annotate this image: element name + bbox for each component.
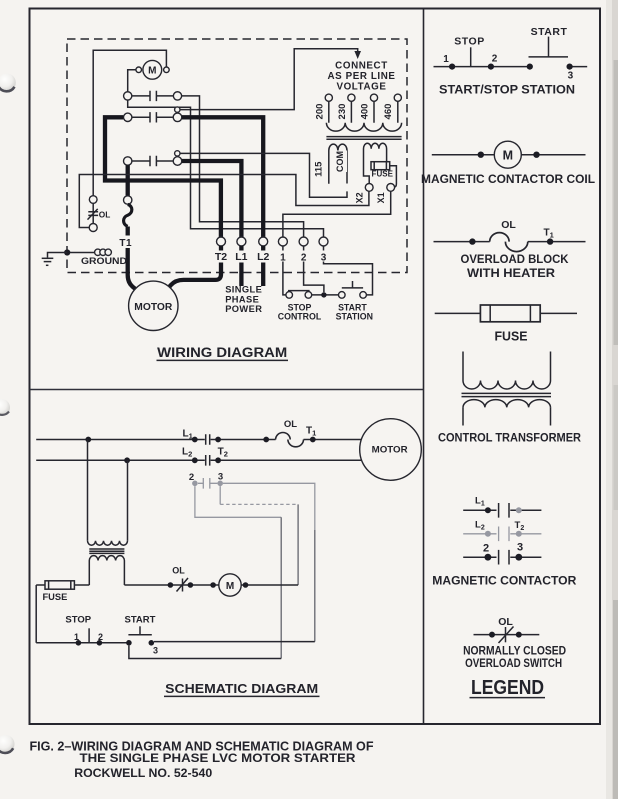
- rung dots: [168, 582, 174, 588]
- svg-text:M: M: [503, 149, 513, 163]
- transformer primary leads: [88, 440, 128, 541]
- svg-text:3: 3: [321, 253, 327, 264]
- left drop wire: [35, 585, 37, 643]
- note CONNECT AS PER LINE VOLTAGE: [327, 61, 395, 93]
- legend NC overload switch symbol: [474, 616, 540, 643]
- legend start/stop station symbol: [434, 26, 588, 81]
- svg-text:OL: OL: [501, 219, 516, 231]
- wire row2-upper to connect-arrow: [180, 49, 358, 110]
- control transformer T1 (wiring): [314, 94, 402, 203]
- ground connector coil: [70, 249, 112, 255]
- thick T2 lead into motor: [169, 246, 221, 288]
- svg-text:MAGNETIC CONTACTOR: MAGNETIC CONTACTOR: [432, 573, 576, 587]
- coil M: [143, 60, 162, 79]
- svg-text:2: 2: [492, 54, 498, 65]
- svg-text:200: 200: [315, 104, 326, 120]
- transformer primary winding: [88, 541, 128, 545]
- legend contact 2-3: [463, 542, 541, 565]
- svg-text:L1: L1: [235, 251, 247, 263]
- svg-text:VOLTAGE: VOLTAGE: [336, 82, 386, 93]
- svg-text:3: 3: [568, 70, 574, 81]
- punch hole top-left: [0, 74, 16, 92]
- svg-text:230: 230: [337, 104, 348, 120]
- wire stop to start with junction: [312, 294, 339, 296]
- svg-text:GROUND: GROUND: [81, 256, 127, 267]
- svg-text:2: 2: [483, 543, 489, 555]
- svg-text:L2: L2: [257, 251, 269, 263]
- svg-text:MOTOR: MOTOR: [372, 444, 409, 454]
- jog to X2: [364, 172, 370, 184]
- svg-text:START: START: [531, 26, 568, 38]
- main contact row 2: [124, 107, 182, 123]
- labels STOP CONTROL / START STATION: [278, 303, 373, 322]
- svg-text:T2: T2: [215, 251, 227, 263]
- svg-text:MAGNETIC CONTACTOR COIL: MAGNETIC CONTACTOR COIL: [421, 172, 595, 186]
- svg-text:STOP: STOP: [65, 615, 91, 626]
- svg-text:400: 400: [360, 104, 371, 120]
- svg-text:2: 2: [98, 632, 103, 642]
- svg-text:3: 3: [218, 472, 223, 483]
- stop control switch: [286, 291, 312, 299]
- overload heater symbol: [276, 432, 304, 446]
- stop switch: [65, 615, 103, 646]
- legend contact L2 grey: [463, 520, 541, 542]
- svg-text:2: 2: [301, 253, 307, 264]
- svg-text:START: START: [125, 615, 156, 626]
- svg-text:FUSE: FUSE: [43, 592, 68, 602]
- wire row1-left to terminal 3: [128, 100, 324, 237]
- svg-text:WITH HEATER: WITH HEATER: [467, 266, 555, 280]
- grey wire contact-2 to start junction: [195, 486, 281, 517]
- svg-text:CONNECT: CONNECT: [335, 61, 388, 72]
- start switch: [125, 615, 159, 656]
- legend control transformer symbol: [462, 352, 552, 426]
- wire X1 to terminal 1: [283, 191, 391, 237]
- wire row1-right to terminal 2: [182, 96, 304, 237]
- grey wire contact-3 to coil-right: [219, 486, 221, 504]
- svg-text:OL: OL: [284, 419, 297, 430]
- ground node dot: [64, 249, 70, 255]
- svg-text:X1: X1: [376, 192, 386, 203]
- transformer secondary winding: [89, 556, 124, 561]
- svg-text:1: 1: [280, 253, 286, 264]
- legend magnetic contactor contact L1: [463, 496, 541, 518]
- svg-text:OL: OL: [99, 209, 111, 219]
- svg-text:OVERLOAD SWITCH: OVERLOAD SWITCH: [465, 656, 562, 670]
- svg-text:M: M: [148, 66, 156, 77]
- svg-text:T1: T1: [119, 238, 132, 249]
- overload switch OL: [88, 196, 111, 232]
- svg-text:3: 3: [517, 542, 523, 554]
- stop rung: [36, 642, 129, 644]
- aux holding contact (row 1): [124, 91, 182, 101]
- svg-text:FUSE: FUSE: [495, 330, 528, 344]
- start station switch: [339, 281, 367, 298]
- wiring/schematic divider: [30, 389, 424, 391]
- label SINGLE PHASE POWER: [225, 285, 262, 315]
- thick L1 power stub: [239, 246, 243, 286]
- legend fuse symbol: [435, 305, 577, 322]
- legend overload block symbol: [434, 219, 586, 252]
- svg-text:2: 2: [189, 472, 194, 483]
- wire OL-bottom to X2: [79, 175, 369, 228]
- motor: [129, 281, 178, 330]
- contact L1-T1 bars: [206, 434, 210, 445]
- coil right wire: [241, 584, 298, 586]
- svg-text:AS PER LINE: AS PER LINE: [327, 71, 395, 82]
- thick wire heater to motor: [128, 227, 136, 290]
- punch hole middle-left: [0, 399, 10, 416]
- wire to ground symbol: [48, 253, 68, 258]
- thick wire row3-left down to heater: [126, 165, 130, 195]
- wire terminal3 to start-right: [324, 246, 373, 295]
- thick wire row2-left to T2 column: [105, 117, 221, 237]
- primary winding: [326, 123, 401, 131]
- svg-text:OL: OL: [498, 616, 513, 628]
- NC overload contact: [172, 566, 188, 592]
- svg-text:M: M: [226, 581, 234, 592]
- legend magnetic contactor coil symbol: [432, 141, 586, 168]
- svg-text:OVERLOAD BLOCK: OVERLOAD BLOCK: [461, 252, 569, 266]
- secondary 115/COM winding: [329, 144, 347, 184]
- wire terminal1 to stop control: [283, 246, 286, 295]
- svg-text:CONTROL: CONTROL: [278, 312, 322, 322]
- svg-text:MOTOR: MOTOR: [134, 302, 173, 313]
- ground symbol: [42, 258, 54, 265]
- svg-text:SCHEMATIC DIAGRAM: SCHEMATIC DIAGRAM: [165, 681, 318, 696]
- wire M-right to OL-top (panel loop): [93, 50, 166, 195]
- svg-text:SINGLE: SINGLE: [225, 285, 262, 295]
- wire row3-upper to COM: [180, 153, 347, 197]
- junction dot: [321, 292, 326, 297]
- svg-text:START/STOP STATION: START/STOP STATION: [439, 82, 575, 96]
- wire M-left to aux contact: [128, 70, 136, 92]
- grey wire contact-3 to start-right: [223, 483, 315, 530]
- fuse to X1: [390, 166, 397, 188]
- heater terminal circle: [124, 196, 132, 204]
- primary tap terminals: [325, 94, 332, 101]
- svg-text:POWER: POWER: [225, 304, 262, 314]
- svg-text:LEGEND: LEGEND: [471, 677, 544, 699]
- core: [326, 137, 401, 140]
- fuse (schematic): [36, 581, 89, 602]
- svg-text:THE SINGLE PHASE LVC MOTOR STA: THE SINGLE PHASE LVC MOTOR STARTER: [80, 751, 356, 765]
- svg-text:PHASE: PHASE: [225, 294, 259, 304]
- node dots rail L1: [85, 437, 91, 443]
- svg-text:3: 3: [153, 646, 158, 656]
- terminals X2 X1: [365, 184, 373, 192]
- svg-text:WIRING DIAGRAM: WIRING DIAGRAM: [157, 345, 287, 361]
- svg-text:X2: X2: [354, 192, 364, 203]
- rail L1: [36, 439, 361, 441]
- thick wire row2-right to L2 terminal: [182, 117, 263, 237]
- coil M (schematic): [219, 574, 241, 596]
- svg-text:115: 115: [314, 161, 325, 177]
- secondary X winding: [364, 143, 387, 172]
- thick wire row3-right to L1 terminal: [182, 161, 242, 237]
- svg-text:STOP: STOP: [454, 36, 484, 48]
- op-coil M terminals: [136, 67, 142, 73]
- wire terminal2 branch: [304, 246, 324, 292]
- thick L2 power stub: [261, 246, 265, 286]
- legend column divider: [423, 9, 425, 725]
- svg-text:460: 460: [383, 104, 394, 120]
- contactor enclosure dashed box: [67, 39, 407, 273]
- node dots rail L2: [124, 457, 130, 463]
- svg-text:CONTROL TRANSFORMER: CONTROL TRANSFORMER: [438, 431, 581, 445]
- svg-text:STATION: STATION: [336, 312, 373, 322]
- svg-text:ROCKWELL NO. 52-540: ROCKWELL NO. 52-540: [74, 766, 212, 780]
- terminal labels T2 L1 L2 1 2 3: [213, 251, 328, 264]
- svg-text:FUSE: FUSE: [372, 170, 394, 179]
- heater element T1 squiggle: [124, 204, 132, 226]
- svg-text:OL: OL: [172, 566, 185, 576]
- motor (schematic): [360, 419, 422, 481]
- grey aux contact 2-3: [189, 472, 223, 489]
- rail L2: [36, 459, 362, 461]
- punch hole bottom-left: [0, 735, 15, 753]
- main contact row 3: [124, 151, 182, 167]
- transformer core: [89, 549, 124, 553]
- terminal strip T2 L1 L2 1 2 3: [217, 237, 329, 246]
- fuse box: [371, 162, 390, 170]
- transformer secondary leads: [89, 561, 124, 586]
- svg-text:COM: COM: [335, 151, 345, 172]
- svg-text:1: 1: [443, 54, 449, 65]
- coil rung wire: [124, 584, 218, 586]
- contact L2-T2 bars: [206, 455, 210, 466]
- svg-text:1: 1: [74, 632, 79, 642]
- tap leads: [329, 101, 398, 122]
- arrowhead: [354, 51, 361, 59]
